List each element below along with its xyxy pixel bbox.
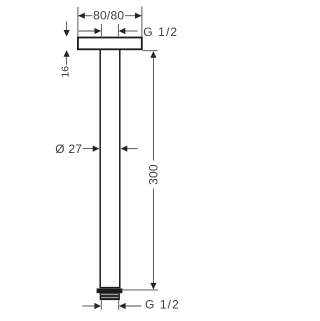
dimension 80/80 extension line left xyxy=(77,7,79,37)
dimension G1/2 bottom extension line left xyxy=(100,300,102,310)
svg-text:G 1/2: G 1/2 xyxy=(143,25,178,39)
dimension line 300 xyxy=(152,57,154,161)
threaded end G1/2 xyxy=(100,293,120,300)
svg-text:80/80: 80/80 xyxy=(93,9,124,23)
dimension Ø27 left leader xyxy=(83,148,93,150)
dimension 80/80 extension line right xyxy=(141,6,143,36)
dimension 16 lower arrow xyxy=(66,56,68,65)
svg-text:Ø 27: Ø 27 xyxy=(55,142,82,156)
ceiling plate (escutcheon) xyxy=(78,38,142,50)
dimension 300 top extension line xyxy=(143,50,158,52)
dimension 300 bottom extension line xyxy=(121,289,158,291)
dimension 16 upper arrow xyxy=(66,22,68,31)
svg-text:300: 300 xyxy=(146,164,160,185)
dimension Ø27 right leader xyxy=(127,148,138,150)
dimension G1/2 bottom extension line right xyxy=(118,300,120,310)
dimension G1/2 top extension line right xyxy=(117,24,119,36)
dimension line G1/2 top xyxy=(79,30,96,32)
dimension line 80/80 xyxy=(78,15,92,17)
check nut collar xyxy=(97,288,123,293)
shower arm pipe xyxy=(99,50,101,288)
dimension line G1/2 bottom xyxy=(82,305,96,307)
dimension G1/2 top extension line left xyxy=(100,24,102,36)
svg-text:16: 16 xyxy=(59,66,71,78)
svg-text:G 1/2: G 1/2 xyxy=(145,298,180,312)
